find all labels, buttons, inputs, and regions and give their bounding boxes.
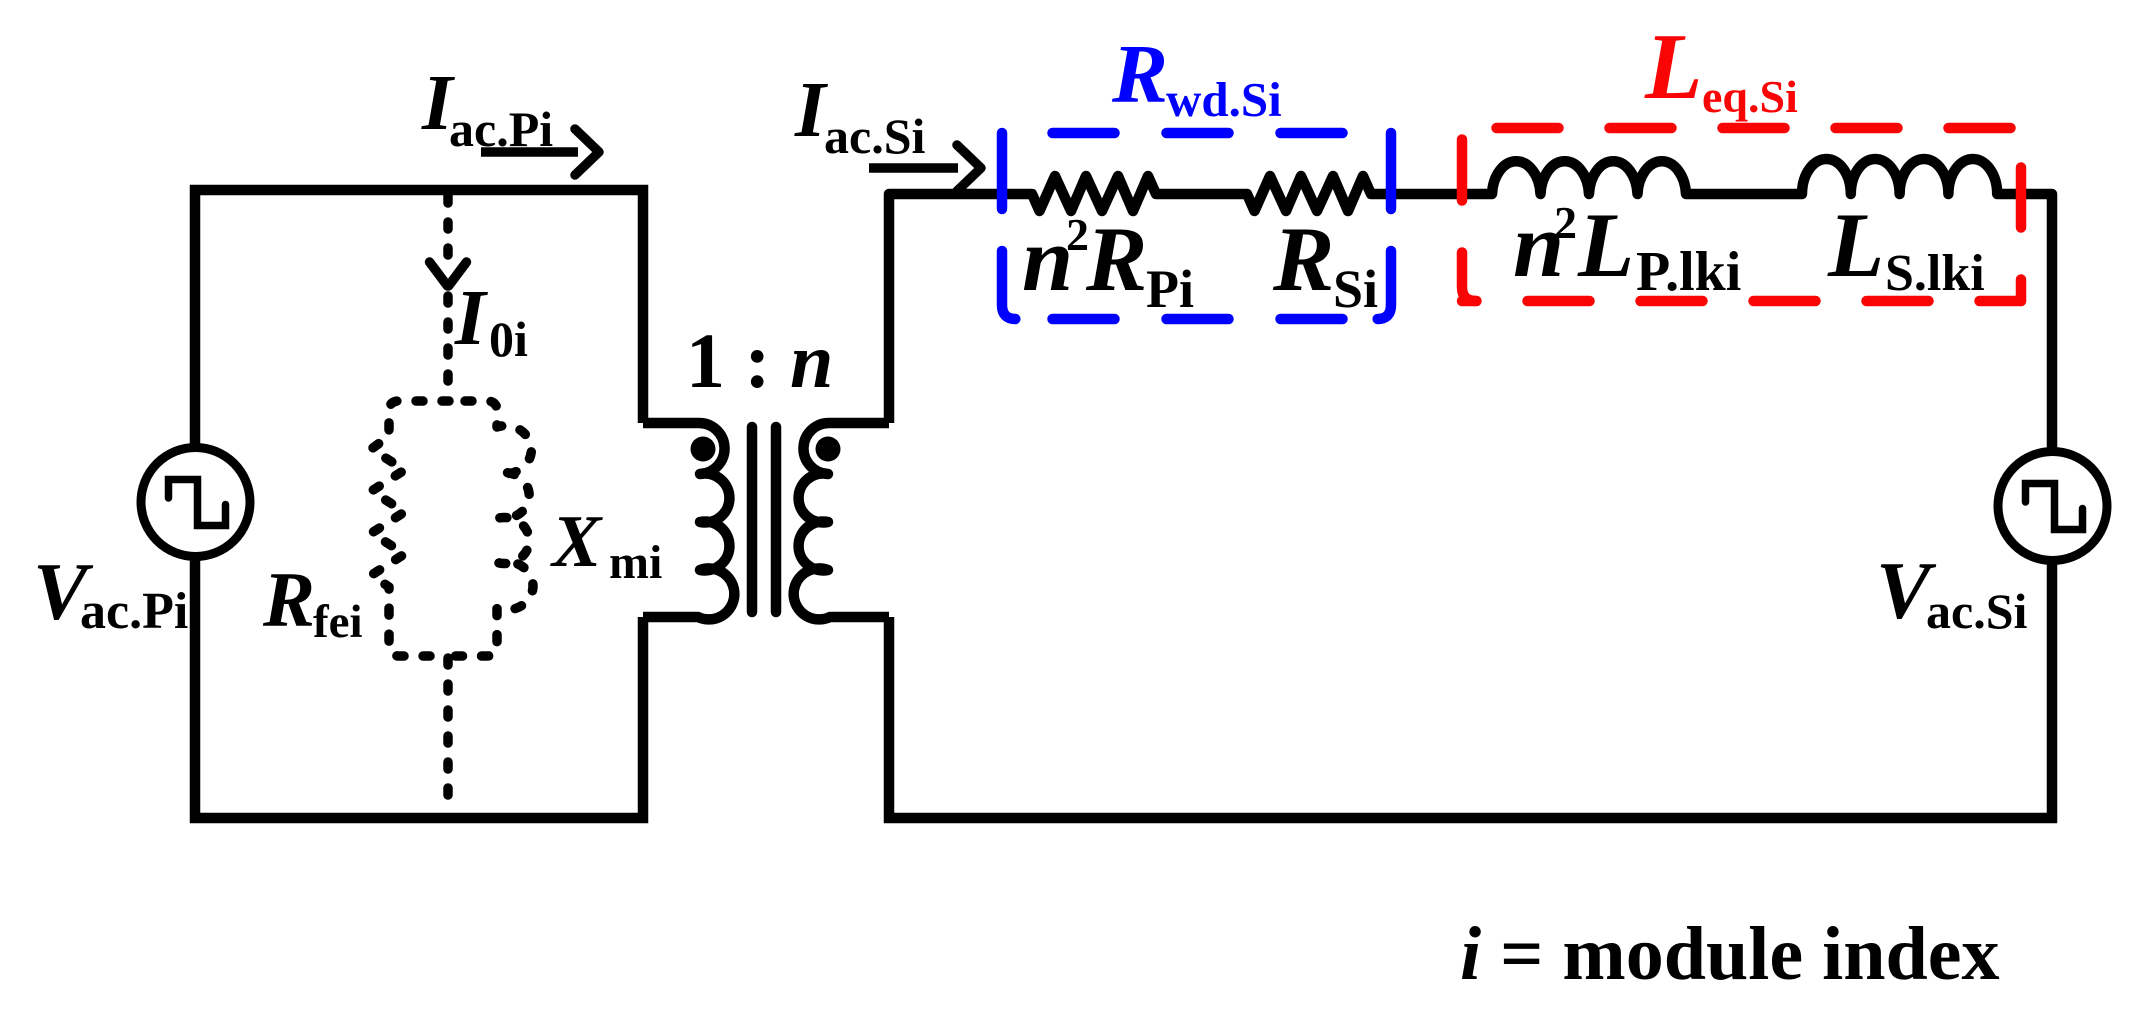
red box L_eq.Si right [2016,128,2027,301]
reactance X_mi dashed branch [449,401,533,656]
source V_ac.Pi [141,448,250,557]
wire secondary top with resistor n2R_Pi resistor R_Si inductor n2L_P.lki inductor L_S.lki [889,159,2052,449]
arrow I_ac.Pi [481,147,578,157]
svg-text:X: X [550,501,603,583]
svg-text:ac.Pi: ac.Pi [80,583,188,640]
blue box R_wd.Si right [1377,133,1391,319]
svg-text:0i: 0i [489,311,528,367]
svg-text:R: R [1272,208,1334,310]
svg-text:R: R [1085,208,1147,310]
blue box R_wd.Si left [1002,133,1016,319]
svg-text:fei: fei [313,596,363,648]
svg-text:P.lki: P.lki [1636,241,1741,303]
red box L_eq.Si bottom [1462,296,2021,307]
wire dashed I_0i lower [443,296,453,399]
svg-text:S.lki: S.lki [1885,245,1985,302]
arrow I_ac.Si [869,163,958,173]
dot primary [691,437,716,462]
wire secondary bottom [889,559,2052,818]
svg-text:R: R [262,556,315,643]
svg-text:2: 2 [1554,197,1577,248]
svg-text:I: I [794,67,828,154]
svg-text:Si: Si [1333,259,1378,319]
arrow I_0i head [430,262,467,286]
source V_ac.Si [1998,452,2107,561]
wire dashed I_0i upper [443,196,453,258]
svg-text:L: L [1577,194,1634,296]
svg-text:wd.Si: wd.Si [1166,72,1282,127]
svg-text:i = module index: i = module index [1460,912,2000,996]
svg-text:mi: mi [609,536,662,589]
svg-text:I: I [454,275,488,362]
red box L_eq.Si top [1462,123,2021,134]
svg-text:1 : n: 1 : n [686,317,833,404]
resistor R_fei dashed branch [372,401,450,656]
wire left loop top [195,190,643,446]
svg-text:R: R [1111,28,1168,121]
blue box R_wd.Si bottom [1002,314,1391,325]
wire dashed magnetizing bottom [443,658,453,812]
dot secondary [816,437,841,462]
svg-text:L: L [1827,194,1884,296]
transformer core [752,427,776,612]
svg-text:Pi: Pi [1146,259,1194,319]
red box L_eq.Si left [1462,128,1476,301]
svg-text:L: L [1644,15,1702,119]
svg-text:ac.Si: ac.Si [824,108,926,164]
transformer secondary winding [794,423,889,619]
svg-text:ac.Si: ac.Si [1926,583,2028,639]
wire left loop bottom [195,558,643,818]
transformer primary winding [643,423,734,619]
svg-text:eq.Si: eq.Si [1702,71,1798,122]
blue box R_wd.Si top [1002,128,1391,139]
